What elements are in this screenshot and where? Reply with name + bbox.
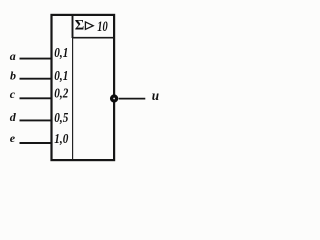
wire input e: [20, 142, 53, 144]
svg-text:d: d: [10, 110, 17, 124]
svg-text:10: 10: [97, 19, 107, 35]
wire input b: [20, 78, 53, 80]
svg-text:0,5: 0,5: [54, 110, 68, 125]
svg-text:Σ: Σ: [75, 17, 84, 33]
wire input a: [20, 58, 53, 60]
svg-text:a: a: [10, 49, 16, 63]
wire input c: [20, 97, 53, 99]
svg-text:0,2: 0,2: [54, 85, 68, 100]
weight column separator line: [72, 38, 74, 160]
svg-text:b: b: [10, 68, 16, 82]
threshold gate U1 body outline: [52, 15, 115, 160]
svg-text:u: u: [152, 88, 159, 103]
svg-text:c: c: [10, 87, 16, 101]
svg-text:1,0: 1,0: [54, 131, 68, 146]
svg-text:0,1: 0,1: [54, 45, 68, 60]
svg-text:e: e: [10, 131, 16, 145]
threshold triangle symbol: [85, 22, 93, 30]
wire input d: [20, 119, 53, 121]
svg-text:0,1: 0,1: [54, 68, 68, 83]
label box left edge (upper part of separator): [72, 15, 74, 39]
wire output u: [119, 98, 146, 100]
output inversion bubble: [112, 96, 117, 101]
label box bottom edge: [72, 37, 115, 39]
